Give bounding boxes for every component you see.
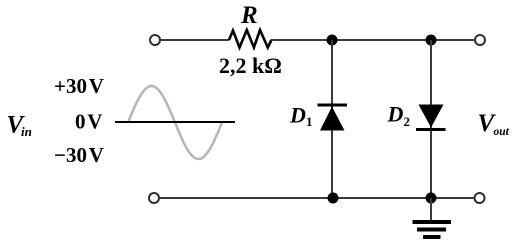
- svg-text:2,2 kΩ: 2,2 kΩ: [219, 53, 282, 78]
- node junction top D1: [327, 35, 338, 46]
- sine wave 0V axis line: [115, 121, 235, 123]
- diode D2: [416, 105, 446, 130]
- svg-text:0 V: 0 V: [75, 110, 102, 134]
- terminal output top: [475, 35, 485, 45]
- terminal input bottom: [149, 193, 159, 203]
- svg-text:1: 1: [306, 114, 313, 129]
- svg-text:2: 2: [404, 114, 411, 129]
- node junction top D2: [426, 35, 437, 46]
- svg-text:in: in: [21, 124, 32, 139]
- node junction bottom D1: [328, 193, 339, 204]
- terminal input top: [150, 35, 160, 45]
- wire D2 branch vertical: [430, 40, 432, 198]
- wire top rail right of resistor: [271, 39, 474, 41]
- diode D1: [318, 105, 348, 131]
- resistor R: [229, 30, 271, 48]
- ground: [413, 222, 452, 237]
- node junction bottom D2: [426, 193, 437, 204]
- terminal output bottom: [475, 193, 485, 203]
- svg-text:D: D: [289, 103, 306, 128]
- svg-text:R: R: [240, 2, 258, 29]
- wire ground stub: [430, 198, 432, 220]
- wire bottom rail: [160, 197, 474, 199]
- wire D1 branch vertical: [331, 40, 333, 198]
- svg-text:−30 V: −30 V: [54, 143, 104, 167]
- wire top rail left of resistor: [161, 39, 229, 41]
- svg-text:+30 V: +30 V: [54, 74, 104, 98]
- sine wave input signal: [128, 86, 222, 159]
- svg-text:D: D: [387, 102, 404, 127]
- svg-text:out: out: [494, 126, 510, 138]
